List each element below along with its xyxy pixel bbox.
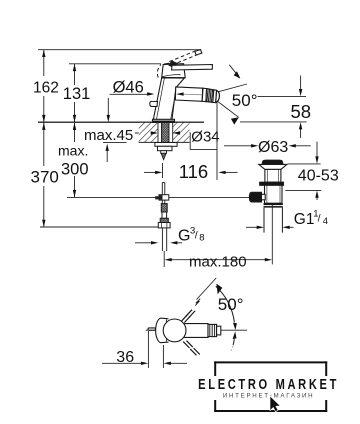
svg-text:Ø63: Ø63: [258, 139, 288, 156]
svg-text:300: 300: [61, 161, 89, 179]
svg-text:40-53: 40-53: [298, 167, 339, 184]
svg-text:116: 116: [179, 161, 209, 182]
svg-text:8: 8: [199, 232, 204, 243]
svg-text:G: G: [178, 227, 190, 244]
svg-text:Ø34: Ø34: [191, 128, 219, 145]
svg-text:370: 370: [31, 168, 59, 187]
svg-text:4: 4: [323, 216, 328, 227]
svg-text:50°: 50°: [232, 91, 258, 110]
svg-text:58: 58: [291, 101, 312, 122]
svg-text:max.180: max.180: [189, 254, 247, 271]
svg-text:Ø46: Ø46: [113, 78, 144, 96]
svg-text:36: 36: [116, 349, 134, 366]
svg-text:max.45: max.45: [84, 127, 133, 144]
svg-text:131: 131: [63, 85, 91, 103]
svg-text:/: /: [195, 230, 198, 242]
svg-text:ELECTRO MARKET: ELECTRO MARKET: [198, 375, 339, 392]
svg-text:ИНТЕРНЕТ-МАГАЗИН: ИНТЕРНЕТ-МАГАЗИН: [223, 393, 315, 400]
svg-text:max.: max.: [58, 143, 88, 159]
svg-text:50°: 50°: [218, 295, 244, 314]
svg-text:/: /: [318, 213, 321, 225]
svg-text:G1: G1: [294, 211, 315, 228]
svg-text:162: 162: [33, 80, 59, 97]
